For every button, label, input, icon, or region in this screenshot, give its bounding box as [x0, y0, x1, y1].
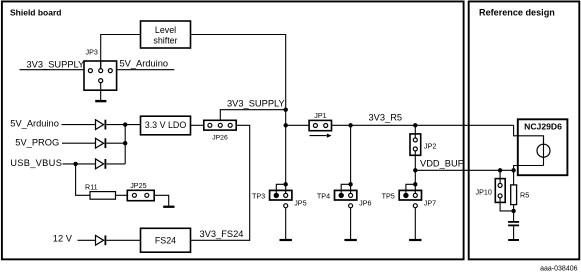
- wire diode join vertical: [124, 125, 126, 164]
- node R11 branch junction: [73, 162, 77, 166]
- net 3V3_SUPPLY (left label): [20, 60, 85, 70]
- wire level shifter output to main vertical bus: [191, 35, 286, 194]
- svg-text:NCJ29D6: NCJ29D6: [524, 122, 562, 132]
- svg-text:USB_VBUS: USB_VBUS: [10, 158, 62, 168]
- node JP1 tap junction: [284, 123, 288, 127]
- net 5V_PROG input: [15, 138, 95, 148]
- node JP10 tap: [498, 168, 502, 172]
- net 5V_Arduino (JP3 right label): [117, 58, 175, 69]
- test point TP4 with jumper JP6: [317, 184, 372, 207]
- test point TP5 with jumper JP7: [382, 184, 437, 207]
- resistor R11: [85, 182, 116, 199]
- arrow below JP1: [310, 134, 332, 138]
- diode D2: [96, 138, 106, 148]
- svg-text:FS24: FS24: [155, 235, 176, 245]
- node TP4 tap: [348, 123, 352, 127]
- node 3V3_SUPPLY junction: [284, 108, 288, 112]
- wire D4 to FS24: [106, 239, 140, 241]
- wire 3V3_R5 into NCJ29D6: [514, 125, 544, 144]
- svg-text:JP1: JP1: [314, 111, 326, 120]
- node R5/JP10 bottom junction: [511, 209, 515, 213]
- wire D3 to join: [106, 163, 125, 165]
- svg-text:TP4: TP4: [317, 192, 330, 201]
- svg-text:5V_PROG: 5V_PROG: [15, 138, 59, 148]
- jumper JP10: [476, 170, 514, 211]
- net 12 V input: [53, 233, 96, 243]
- node TP5 branch junction: [413, 182, 417, 186]
- svg-text:TP5: TP5: [382, 192, 395, 201]
- wire rail to TP4: [350, 125, 352, 193]
- svg-text:3.3 V LDO: 3.3 V LDO: [145, 120, 187, 130]
- regulator 3.3 V LDO: [141, 116, 191, 135]
- wire VDD_BUF into NCJ29D6: [514, 166, 544, 171]
- connector JP3: [84, 48, 117, 91]
- svg-text:JP26: JP26: [212, 135, 228, 142]
- node diode join 2: [123, 141, 127, 145]
- svg-text:Shield board: Shield board: [10, 7, 61, 17]
- node TP3 branch junction: [284, 182, 288, 186]
- svg-text:VDD_BUF: VDD_BUF: [420, 159, 464, 169]
- IC NCJ29D6: [518, 119, 568, 175]
- wire JP25 to ground: [154, 195, 169, 206]
- svg-text:R5: R5: [520, 191, 529, 200]
- svg-text:TP3: TP3: [252, 192, 265, 201]
- wire D1 to LDO: [106, 124, 140, 126]
- svg-text:Level: Level: [155, 25, 176, 35]
- ground TP4 column: [344, 239, 356, 241]
- connector JP26: [204, 120, 236, 141]
- net 5V_Arduino input: [10, 119, 95, 129]
- shield board frame: [2, 1, 464, 259]
- svg-text:JP3: JP3: [86, 48, 98, 57]
- wire JP26 pin3 down to FS24 output: [191, 125, 250, 240]
- svg-text:3V3_SUPPLY: 3V3_SUPPLY: [227, 99, 285, 109]
- diode D1: [96, 120, 106, 130]
- wire R11 to JP25: [116, 194, 128, 196]
- svg-text:3V3_SUPPLY: 3V3_SUPPLY: [27, 60, 85, 70]
- wire level shifter to JP3: [101, 35, 141, 69]
- test point TP3 with jumper JP5: [252, 184, 307, 207]
- capacitor C1: [508, 222, 519, 239]
- node TP4 branch junction: [348, 182, 352, 186]
- wire USB_VBUS branch to R11: [76, 164, 90, 195]
- svg-text:R11: R11: [85, 182, 98, 191]
- jumper JP1: [309, 111, 331, 131]
- wire JP7 to ground: [414, 208, 416, 239]
- wire 3V3_R5 rail: [332, 124, 514, 126]
- wire bus to JP1: [286, 124, 309, 126]
- svg-text:JP10: JP10: [476, 188, 492, 197]
- wire JP5 to ground: [285, 208, 287, 239]
- jumper JP25: [127, 181, 154, 201]
- svg-text:JP6: JP6: [359, 199, 371, 208]
- wire JP6 to ground: [350, 208, 352, 239]
- net USB_VBUS input: [10, 158, 95, 168]
- ground TP3 column: [280, 239, 292, 241]
- wire LDO to JP26: [191, 124, 204, 126]
- svg-text:5V_Arduino: 5V_Arduino: [120, 58, 169, 68]
- ground right of JP25: [163, 206, 174, 208]
- svg-text:3V3_FS24: 3V3_FS24: [200, 229, 244, 239]
- wire VDD_BUF to TP5: [414, 170, 416, 193]
- resistor R5: [511, 170, 530, 221]
- node JP2 tap: [413, 123, 417, 127]
- wire VDD_BUF line: [415, 169, 513, 171]
- svg-text:aaa-038406: aaa-038406: [540, 266, 577, 273]
- svg-text:JP2: JP2: [424, 142, 436, 151]
- node VDD_BUF left junction: [413, 168, 417, 172]
- svg-text:JP7: JP7: [424, 199, 436, 208]
- wire D2 to join: [106, 142, 125, 144]
- diode D4: [96, 235, 106, 245]
- wire JP26 pin2 to 3V3_SUPPLY node: [220, 110, 285, 121]
- svg-text:5V_Arduino: 5V_Arduino: [10, 119, 59, 129]
- ground reference design: [508, 239, 519, 241]
- svg-text:shifter: shifter: [153, 35, 177, 45]
- reference design frame: [469, 1, 580, 259]
- diode D3: [96, 159, 106, 169]
- svg-text:JP5: JP5: [294, 199, 306, 208]
- converter FS24: [141, 228, 191, 252]
- svg-text:JP25: JP25: [130, 181, 146, 190]
- ground below JP3: [95, 83, 106, 103]
- svg-text:3V3_R5: 3V3_R5: [369, 112, 403, 122]
- node diode join 1: [123, 122, 127, 126]
- node R5 tap: [511, 168, 515, 172]
- svg-text:Reference design: Reference design: [479, 8, 555, 18]
- ground TP5 column: [409, 239, 421, 241]
- level shifter: [141, 21, 191, 48]
- svg-text:12 V: 12 V: [53, 233, 73, 243]
- jumper JP2: [410, 125, 436, 170]
